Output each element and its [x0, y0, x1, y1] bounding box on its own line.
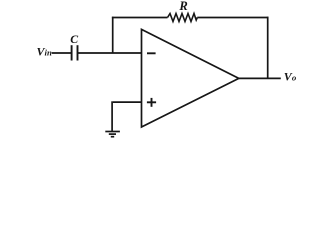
wire: [197, 17, 268, 19]
svg-text:R: R: [178, 0, 187, 13]
wire: [111, 101, 113, 131]
svg-text:C: C: [70, 32, 78, 46]
wire: [52, 52, 72, 54]
pin - (inverting input): [147, 52, 156, 54]
wire: [78, 52, 142, 54]
svg-text:Vin: Vin: [37, 45, 52, 59]
capacitor C: [72, 45, 78, 60]
wire: [267, 17, 269, 79]
ground: [105, 132, 120, 137]
pin + (non-inverting input): [147, 98, 156, 107]
wire: [112, 17, 168, 19]
op-amp U1: [142, 29, 239, 127]
svg-text:Vo: Vo: [284, 69, 297, 83]
wire: [112, 17, 114, 53]
wire: [113, 101, 142, 103]
resistor R: [168, 14, 198, 22]
wire: [239, 77, 281, 79]
